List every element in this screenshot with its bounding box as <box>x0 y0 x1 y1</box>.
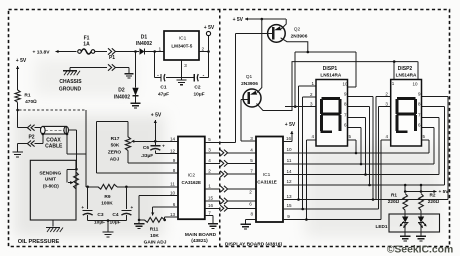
svg-text:14: 14 <box>286 169 292 174</box>
svg-text:C6: C6 <box>143 145 149 151</box>
svg-text:MAIN BOARD: MAIN BOARD <box>185 232 217 238</box>
label R2 220ohm <box>428 199 440 204</box>
wire DISP2 pin2 left <box>376 95 391 97</box>
svg-text:R1: R1 <box>391 193 397 198</box>
pin 10 label IC3 <box>286 147 292 152</box>
connector chevron row3 <box>220 150 227 156</box>
wire seg E riser DISP2 pin2 <box>376 96 379 199</box>
wire DISP1 pin1 <box>297 86 316 201</box>
svg-text:C4: C4 <box>112 212 118 218</box>
label D1 IN4002 <box>136 41 152 47</box>
resistor R1 220 <box>403 194 408 211</box>
wire C1 left vertical <box>154 52 156 78</box>
label Q2 2N3906 <box>291 34 308 40</box>
wire P1 to D1 node <box>116 51 139 53</box>
svg-text:+: + <box>131 205 134 210</box>
label DISP1 <box>323 66 338 72</box>
pin 11 label IC3 <box>287 158 292 163</box>
wire row pin4 to IC3 pin5 <box>205 162 256 164</box>
wire seg B IC3 pin11 <box>283 128 434 164</box>
wire DISP2 pin1 up <box>393 62 395 80</box>
svg-text:10: 10 <box>342 82 348 87</box>
node DISP1 pin3 junction <box>294 105 297 108</box>
node junction R11 right <box>163 219 166 222</box>
pin 8 label DISP1 <box>344 102 347 107</box>
diode D1 <box>140 48 145 54</box>
node coax shield right <box>66 133 69 136</box>
capacitor C1 <box>157 73 165 82</box>
pin 14 label <box>170 136 176 141</box>
label 10uF C2 <box>193 92 204 98</box>
svg-text:C3: C3 <box>97 212 103 218</box>
wire row pin15 to IC3 pin6 <box>205 200 256 202</box>
label DISPLAY BOARD <box>225 241 282 247</box>
label SENDING <box>39 170 61 176</box>
wire IC3 pin8 ground <box>246 219 256 222</box>
label Q1 <box>246 74 253 80</box>
svg-text:1: 1 <box>158 47 161 53</box>
wire R9 to IC2 pin11 <box>117 186 178 188</box>
pin 9 label IC3 <box>287 214 290 219</box>
pin 3 label IC2 <box>208 148 211 153</box>
node junction R1 sense line <box>16 109 19 112</box>
svg-text:LN514RA: LN514RA <box>320 72 341 77</box>
svg-text:14: 14 <box>170 136 176 141</box>
wire C2 right vertical <box>208 52 210 78</box>
svg-text:12: 12 <box>286 179 292 184</box>
connector chevron row1 <box>220 186 227 192</box>
label R11 <box>150 227 159 233</box>
pin 10 label DISP1 <box>342 82 348 87</box>
pin 10 label DISP2 <box>412 82 418 87</box>
wire R1 to coax node <box>17 102 19 127</box>
wire pin6 wiper rail <box>153 206 178 208</box>
op-amp IC3 CA3161E box <box>256 137 283 223</box>
pin 16 label IC2 <box>208 203 214 208</box>
wire node to D2 <box>135 52 137 88</box>
scan gray wash top-left <box>35 58 135 96</box>
wire DISP1 pin9 drop <box>348 96 374 199</box>
node Q2 rail <box>307 51 310 54</box>
node junction sense R9 <box>86 186 89 189</box>
connector chevron row4 <box>220 160 227 166</box>
connector P2 upper pin <box>27 125 34 131</box>
fuse F1 <box>78 49 95 54</box>
pin 11 label <box>170 182 175 187</box>
pin 8 label DISP2 <box>418 102 421 107</box>
pin 7 label DISP1 <box>344 113 347 118</box>
label R1 220ohm <box>388 199 400 204</box>
label R2 led <box>430 193 436 198</box>
svg-text:(0-80Ω): (0-80Ω) <box>43 183 59 188</box>
svg-text:DISP2: DISP2 <box>398 66 413 72</box>
pin 14 label IC3 <box>286 169 292 174</box>
svg-text:+ 5V: + 5V <box>285 122 296 128</box>
wire DISP1 pin8 drop <box>348 107 370 185</box>
svg-text:220Ω: 220Ω <box>428 199 440 204</box>
svg-text:D1: D1 <box>141 35 148 41</box>
wire D1 cathode to IC1 pin1 <box>145 51 164 53</box>
connector P1 lower pin <box>108 64 115 70</box>
capacitor C4 <box>121 205 133 215</box>
wire +5V arrow adj <box>154 120 157 141</box>
svg-text:10µF: 10µF <box>193 92 204 98</box>
wire pin14 rail <box>136 140 178 142</box>
svg-text:3: 3 <box>250 136 253 141</box>
node DISP2 pin1 rail <box>393 60 396 63</box>
label +5V rail <box>233 17 244 23</box>
wire shield right to sense node <box>67 134 86 187</box>
wire row pin16 to IC3 pin8 <box>205 207 256 209</box>
svg-text:+ 5V: + 5V <box>438 189 449 195</box>
node junction D1 anode <box>134 50 137 53</box>
wire R17 wiper arrow <box>131 140 140 143</box>
label LM340T-5 <box>171 44 192 49</box>
wire coax center to sender <box>69 130 77 169</box>
wire P2 to coax center <box>35 128 41 131</box>
wire pin10 to R11 left <box>139 195 178 220</box>
wire sense to R9 <box>86 186 98 188</box>
svg-text:SENDING: SENDING <box>39 170 61 176</box>
svg-text:IC1: IC1 <box>263 172 271 178</box>
wire Q2 base vertical <box>235 33 237 142</box>
pin 8 label IC3 <box>251 212 254 217</box>
pin 4 label IC3 <box>250 147 253 152</box>
svg-text:220Ω: 220Ω <box>388 199 400 204</box>
svg-text:47µF: 47µF <box>158 92 169 98</box>
svg-text:CA3161E: CA3161E <box>257 180 277 185</box>
wire P1 lower to ground <box>116 68 129 72</box>
wire seg A IC3 pin10 <box>283 140 429 153</box>
connector chevron row16 <box>220 205 227 211</box>
wire DISP2 pin7 right <box>422 117 440 119</box>
pin 3 label IC3 <box>250 136 253 141</box>
svg-text:10K: 10K <box>150 233 159 239</box>
svg-text:13: 13 <box>286 194 292 199</box>
pin 4 label DISP2 <box>386 134 389 139</box>
node junction +5V pin14 <box>154 140 157 143</box>
wire sender wiper loop <box>67 169 76 184</box>
node seg D DISP1 pin8 <box>368 184 371 187</box>
label F1 <box>84 36 90 42</box>
svg-text:1A: 1A <box>83 42 90 48</box>
node seg E DISP1 pin9 <box>372 198 375 201</box>
pin 5 label DISP1 <box>349 134 352 139</box>
pin 3 label IC1 <box>184 63 187 69</box>
diode D2 <box>132 88 138 96</box>
label R17 <box>111 136 120 142</box>
svg-text:R2: R2 <box>430 193 436 198</box>
svg-text:DISP1: DISP1 <box>323 66 338 72</box>
seven segment glyph DISP1 <box>321 98 341 131</box>
svg-text:16: 16 <box>208 203 214 208</box>
wire seg C IC3 pin14 <box>283 118 439 175</box>
wire DISP2 pin10 up <box>417 62 419 80</box>
wire Q1 collector <box>257 62 418 111</box>
wire DISP1 pin5 drop <box>348 140 357 153</box>
label ZERO <box>108 150 122 156</box>
sending unit box <box>30 160 76 220</box>
pin 1 label IC2 <box>208 184 211 189</box>
LED D1 left <box>400 210 409 228</box>
label GAIN ADJ <box>144 240 167 246</box>
pin 5 label IC3 <box>250 158 253 163</box>
pin 2 label DISP2 <box>385 91 388 96</box>
wire seg E IC3 pin13 <box>283 96 448 199</box>
coax center conductor dashed <box>46 129 65 131</box>
svg-text:©SeekIC.com: ©SeekIC.com <box>387 244 454 255</box>
svg-text:15: 15 <box>286 203 292 208</box>
resistor R11 10K pot <box>144 218 164 223</box>
node coax shield left <box>42 133 45 136</box>
transistor Q2 <box>268 25 286 43</box>
svg-text:OIL PRESSURE: OIL PRESSURE <box>18 239 60 245</box>
pin 9 label <box>173 158 176 163</box>
chassis ground below sender <box>46 228 63 233</box>
wire C4 vertical <box>125 187 127 209</box>
svg-text:2N3906: 2N3906 <box>241 81 258 87</box>
pin 1 label DISP1 <box>312 81 315 86</box>
connector chevron row2 <box>220 171 227 177</box>
wire R11 right to pin13 <box>165 217 178 220</box>
svg-text:IC1: IC1 <box>179 36 187 42</box>
ground below LED right <box>416 234 426 241</box>
svg-text:IN4002: IN4002 <box>136 41 152 47</box>
label GROUND <box>59 87 82 93</box>
wire sender box bottom to chassis <box>52 220 54 227</box>
label +5V regulator output <box>204 25 215 31</box>
ground below LED left <box>400 234 410 241</box>
capacitor C2 <box>194 73 204 82</box>
svg-text:IN4002: IN4002 <box>114 95 130 101</box>
wire row pin3 to IC3 pin4 <box>205 152 256 154</box>
resistor R17 50K pot <box>125 137 130 151</box>
label D2 IN4002 <box>114 95 130 101</box>
watermark SeekIC <box>387 244 454 255</box>
wire R1 node to P2 <box>18 127 28 129</box>
svg-text:11: 11 <box>287 158 292 163</box>
label 470ohm <box>25 99 37 105</box>
node seg C DISP1 pin7 <box>364 173 367 176</box>
wire Q2 collector <box>281 38 308 52</box>
node seg B DISP1 pin6 <box>360 163 363 166</box>
label Q1 2N3906 <box>241 81 258 87</box>
pin 7 label DISP2 <box>418 113 421 118</box>
board separator dashed line <box>219 10 221 247</box>
pin 5 label IC2 <box>208 137 211 142</box>
svg-text:CHASSIS: CHASSIS <box>59 79 82 85</box>
pin 7 label IC2 <box>208 210 211 215</box>
svg-text:3: 3 <box>208 148 211 153</box>
node seg A DISP1 pin5 <box>355 152 358 155</box>
svg-text:7: 7 <box>250 169 253 174</box>
pin 1 label DISP2 <box>392 81 395 86</box>
wire caps to ground <box>107 221 109 230</box>
pin 6 label <box>173 202 176 207</box>
LED1 box <box>389 214 440 232</box>
svg-text:Q2: Q2 <box>294 27 301 33</box>
ground at P1 lower <box>125 72 134 78</box>
wire row pin5 <box>205 141 236 143</box>
coax cable shield cylinder <box>41 126 69 134</box>
capacitor C3 <box>81 205 92 215</box>
label C3 10uF <box>94 220 105 226</box>
node junction +5V reg <box>207 50 210 53</box>
chassis ground symbol <box>63 71 80 76</box>
transistor Q1 <box>243 89 261 107</box>
label +5V adj <box>151 113 162 119</box>
label C4 <box>112 212 118 218</box>
svg-text:9: 9 <box>173 158 176 163</box>
label CABLE <box>45 144 63 150</box>
svg-text:1: 1 <box>208 184 211 189</box>
svg-text:.33µF: .33µF <box>141 153 153 159</box>
pin 2 label IC3 <box>249 190 252 195</box>
wire chassis to P1 lower <box>70 68 107 71</box>
svg-text:(43821): (43821) <box>191 238 208 244</box>
connector P2 lower pin <box>27 141 34 147</box>
svg-text:10: 10 <box>286 147 292 152</box>
wire IC1 pin3 stub <box>181 60 183 78</box>
op-amp IC2 CA3162E box <box>178 137 205 220</box>
svg-text:+ 5V: + 5V <box>151 113 162 119</box>
ground below D2 <box>130 101 140 108</box>
label D1 <box>141 35 148 41</box>
capacitor C6 <box>150 141 165 153</box>
wire IC3 pin16 +5V <box>283 131 293 142</box>
node junction R11 left <box>138 219 141 222</box>
pin 16 label IC3 <box>286 136 292 141</box>
svg-text:2N3906: 2N3906 <box>291 34 308 40</box>
label IC1 display driver <box>263 172 271 178</box>
label 10K <box>150 233 159 239</box>
node R2 top <box>420 190 423 193</box>
svg-text:8: 8 <box>173 168 176 173</box>
display DISP2 box <box>391 80 422 147</box>
ground below C3 C4 <box>103 230 114 237</box>
svg-text:UNIT: UNIT <box>45 176 56 182</box>
ground below P2 <box>12 150 22 157</box>
svg-text:DISPLAY BOARD (43816): DISPLAY BOARD (43816) <box>225 241 282 247</box>
svg-text:6: 6 <box>173 202 176 207</box>
wire C3 vertical <box>87 187 89 209</box>
resistor R2 220 <box>419 194 424 211</box>
label C2 <box>194 85 200 91</box>
wire seg D IC3 pin12 <box>283 107 445 185</box>
svg-text:R9: R9 <box>104 194 110 200</box>
svg-text:470Ω: 470Ω <box>25 99 37 105</box>
label C4 10uF <box>109 220 120 226</box>
wire DISP1 pin4 net <box>306 140 316 220</box>
pin 3 label DISP2 <box>385 102 388 107</box>
node junction cap ground <box>107 219 110 222</box>
svg-text:R1: R1 <box>24 93 30 99</box>
svg-text:LED1: LED1 <box>376 224 388 229</box>
svg-text:R17: R17 <box>111 136 120 142</box>
svg-text:13: 13 <box>170 212 176 217</box>
wire seg G IC3 pin9 <box>283 140 381 220</box>
node junction C4 tap <box>125 186 128 189</box>
wire R17 loop <box>97 122 129 173</box>
svg-text:3: 3 <box>184 63 187 69</box>
label 100K <box>101 201 113 207</box>
svg-text:50K: 50K <box>111 143 120 149</box>
wire LED2 right ground <box>420 223 422 234</box>
wire DISP1 pin6 drop <box>348 128 362 164</box>
wire DISP1 common left drop <box>294 52 296 107</box>
wire R11 wiper arrow <box>151 207 154 216</box>
pin 1 label IC1 <box>158 47 161 53</box>
pin 2 label IC2 <box>208 169 211 174</box>
pin 15 label IC2 <box>208 196 214 201</box>
pin 13 label IC3 <box>286 194 292 199</box>
label 43821 <box>191 238 208 244</box>
pin 9 label DISP2 <box>418 91 421 96</box>
wire cap rail <box>155 77 209 79</box>
pin 6 label IC3 <box>249 202 252 207</box>
wire C6 to pin12 <box>155 152 178 154</box>
label C1 <box>160 85 166 91</box>
svg-text:LN514RA: LN514RA <box>396 72 417 77</box>
wire Q2 collector rail <box>295 51 356 53</box>
LED D2 right <box>418 210 427 228</box>
svg-text:ZERO: ZERO <box>108 150 122 156</box>
svg-text:2: 2 <box>208 169 211 174</box>
svg-text:10: 10 <box>412 82 418 87</box>
label +13.8V <box>33 50 51 56</box>
svg-text:C2: C2 <box>194 85 200 91</box>
connector P1 upper pin <box>108 48 115 54</box>
svg-text:GROUND: GROUND <box>59 87 82 93</box>
pin 3 label DISP1 <box>310 102 313 107</box>
display DISP1 box <box>316 80 348 147</box>
label OIL PRESSURE <box>18 239 60 245</box>
pin 12 label <box>170 148 176 153</box>
wire DISP2 pin3 left <box>379 106 391 108</box>
pin 5 label DISP2 <box>423 134 426 139</box>
svg-text:+: + <box>162 144 165 149</box>
label MAIN BOARD <box>185 232 217 238</box>
pin 6 label DISP2 <box>418 123 421 128</box>
wire DISP2 pin8 right <box>422 106 445 108</box>
pin 15 label IC3 <box>286 203 292 208</box>
resistor sending unit rheostat <box>74 172 79 189</box>
pin 4 label DISP1 <box>312 134 315 139</box>
wire R2 riser <box>420 184 423 192</box>
wire LED1 left ground <box>404 223 406 234</box>
svg-text:2: 2 <box>249 190 252 195</box>
svg-text:15: 15 <box>208 196 214 201</box>
label DISP1 LN514RA <box>320 72 341 77</box>
wire Q1 emitter <box>250 19 262 95</box>
svg-text:GAIN ADJ: GAIN ADJ <box>144 240 167 246</box>
label CHASSIS <box>59 79 82 85</box>
node junction C1 tap <box>153 50 156 53</box>
svg-text:11: 11 <box>170 182 175 187</box>
wire +5V rail top <box>245 17 286 20</box>
svg-text:+: + <box>81 205 84 210</box>
wire Q1 base <box>241 100 249 141</box>
label ADJ R17 <box>110 157 120 163</box>
svg-text:9: 9 <box>287 214 290 219</box>
svg-text:ADJ: ADJ <box>110 157 120 163</box>
svg-text:10: 10 <box>170 190 176 195</box>
label Q2 <box>294 27 301 33</box>
wire pin7 to ground <box>205 216 213 222</box>
label IC1 <box>179 36 187 42</box>
wire DISP1 pin10 <box>348 52 357 87</box>
label P1 <box>109 55 115 61</box>
